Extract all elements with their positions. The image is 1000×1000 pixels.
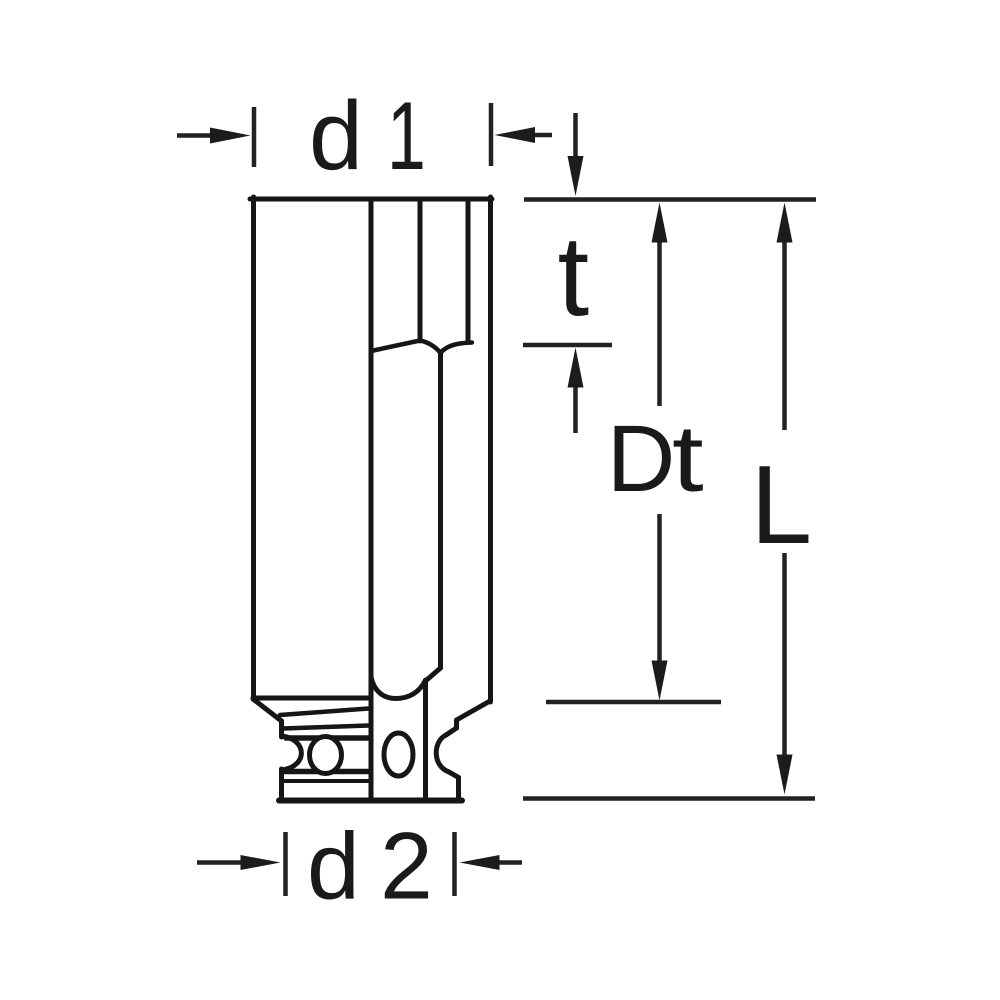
svg-text:t: t	[672, 406, 704, 512]
svg-text:t: t	[558, 213, 590, 340]
socket body left edge	[251, 197, 256, 699]
Dt bottom extension line	[546, 700, 721, 705]
hex bore line right	[466, 199, 471, 342]
left profile above notch	[279, 721, 284, 737]
svg-text:d: d	[307, 814, 360, 920]
Dt down arrowhead	[652, 661, 668, 701]
collar line B	[283, 726, 369, 729]
t down arrow line	[573, 113, 578, 158]
hex bore bottom dip	[420, 341, 472, 354]
detent ball	[310, 737, 342, 774]
t down arrowhead	[568, 156, 584, 196]
d1 left arrowhead	[210, 128, 251, 144]
hex bore line left	[369, 199, 374, 800]
d1 right arrow line	[534, 133, 552, 138]
socket body top edge	[250, 197, 492, 202]
L bottom extension line	[523, 796, 815, 801]
t up arrow line	[573, 386, 578, 434]
drive bottom edge	[279, 798, 462, 804]
L upper dim line	[782, 240, 787, 430]
d2 left arrow line	[197, 860, 242, 865]
left profile below notch	[279, 769, 284, 798]
ball band top line	[286, 735, 369, 741]
d1 left tick	[252, 107, 257, 167]
collar line A	[280, 709, 369, 716]
socket body right edge	[488, 197, 493, 702]
d2 left tick	[283, 832, 288, 896]
Dt up arrowhead	[652, 203, 668, 243]
d1 left arrow line	[177, 133, 214, 138]
L down arrowhead	[777, 755, 793, 795]
t bottom extension line	[523, 343, 612, 348]
d2 right arrowhead	[460, 855, 500, 870]
svg-text:d: d	[309, 81, 363, 190]
t up arrowhead	[568, 348, 584, 388]
cross hole	[384, 733, 413, 776]
svg-text:D: D	[607, 406, 676, 512]
L up arrowhead	[777, 203, 793, 243]
Dt upper dim line	[657, 240, 662, 406]
socket body bottom edge left half	[253, 696, 369, 701]
t top extension line	[524, 197, 816, 202]
d1 right tick	[489, 103, 494, 166]
ball band bottom line	[285, 769, 369, 775]
d2 right arrow line	[499, 860, 522, 865]
drive shaft right edge	[423, 681, 428, 798]
svg-text:1: 1	[387, 81, 426, 190]
right profile step	[446, 720, 457, 735]
svg-text:2: 2	[380, 814, 433, 920]
right chamfer	[457, 701, 491, 720]
d1 right arrowhead	[495, 127, 536, 143]
lower collar line	[284, 779, 369, 783]
L lower dim line	[782, 553, 787, 756]
d2 left arrowhead	[241, 855, 281, 870]
svg-text:L: L	[750, 443, 812, 567]
d2 right tick	[452, 832, 457, 896]
hex bore line middle	[418, 199, 423, 341]
hex bore bottom left facet	[371, 341, 420, 352]
Dt lower dim line	[657, 514, 662, 662]
drive shaft bottom arc	[371, 677, 426, 699]
left waist notch	[282, 736, 302, 770]
left chamfer	[253, 699, 282, 721]
hex bore corner line down	[426, 353, 441, 681]
right waist notch	[436, 735, 449, 772]
right profile lower step	[449, 772, 459, 798]
